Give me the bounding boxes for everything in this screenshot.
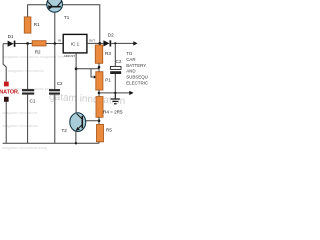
node T2 emitter bus junction	[75, 142, 77, 144]
wire T2 base	[82, 120, 99, 122]
resistor R3	[95, 45, 102, 63]
wire C1 top lead	[27, 44, 29, 90]
wire D2 to output arrow	[111, 42, 133, 44]
capacitor C2	[49, 89, 60, 95]
svg-text:D2: D2	[108, 32, 114, 37]
wire ADJ to divider junction	[76, 68, 99, 70]
svg-text:swagatam innovations: swagatam innovations	[2, 124, 38, 128]
transistor T1	[47, 0, 63, 12]
node T1 base C2 junction	[54, 42, 57, 45]
output arrow negative	[129, 91, 133, 95]
svg-text:swagatam innovations swag: swagatam innovations swag	[2, 146, 47, 150]
label output text TO CAR BATTERY	[126, 51, 149, 85]
resistor R5	[97, 125, 104, 142]
wire C3 bottom lead	[114, 74, 116, 93]
wire junction to D2	[100, 42, 104, 44]
svg-text:R4 = 2R5: R4 = 2R5	[103, 110, 123, 115]
svg-text:D1: D1	[8, 34, 14, 39]
wire bottom bus	[3, 142, 99, 144]
svg-text:T1: T1	[64, 15, 70, 20]
resistor R2	[32, 41, 46, 46]
resistor R4	[96, 97, 103, 118]
wire R4 to R5	[98, 117, 100, 124]
wire top rail right with drop to OUT junction	[62, 5, 100, 44]
wire OUT to junction	[87, 42, 100, 44]
wire R1 top lead and top rail left	[28, 5, 47, 17]
svg-text:SUBSEQU: SUBSEQU	[126, 75, 148, 80]
terminal positive	[4, 82, 9, 87]
svg-text:swagatam innovations: swagatam innovations	[8, 69, 44, 73]
wire R3 to P1	[98, 63, 100, 71]
ground	[111, 93, 120, 104]
svg-text:C1: C1	[30, 99, 36, 104]
svg-text:BATTERY: BATTERY	[126, 63, 146, 68]
svg-text:C2: C2	[116, 59, 122, 64]
wire output ground line	[99, 92, 130, 94]
svg-text:CAR: CAR	[126, 57, 135, 62]
svg-text:R2: R2	[35, 49, 41, 54]
transistor T2	[70, 113, 86, 132]
svg-text:C2: C2	[57, 81, 63, 86]
node R1 D1 R2 junction	[26, 42, 29, 45]
wire C3 top lead	[114, 43, 116, 66]
capacitor C3 electrolytic	[110, 66, 121, 74]
wire R2 to IC IN	[46, 43, 63, 45]
node ground line junction	[98, 92, 101, 95]
wire T1 base lead	[54, 12, 56, 44]
wire R5 to bottom bus	[98, 142, 100, 144]
wire C2 top lead	[54, 44, 56, 90]
wire C1 bottom lead	[27, 95, 29, 144]
resistor R1	[24, 17, 31, 33]
svg-text:R1: R1	[34, 22, 40, 27]
svg-text:TO: TO	[126, 51, 133, 56]
diode D1	[8, 41, 16, 47]
node ground tap	[114, 92, 116, 94]
svg-text:ADJUST: ADJUST	[64, 54, 75, 58]
capacitor C1	[22, 89, 34, 95]
svg-text:R3: R3	[105, 51, 111, 56]
arrow P1 wiper	[94, 75, 97, 78]
svg-text:IC 1: IC 1	[71, 41, 80, 46]
node C3 tap	[114, 42, 116, 44]
svg-text:R5: R5	[106, 127, 112, 132]
svg-text:P1: P1	[105, 77, 111, 82]
wire P1 to R4	[98, 90, 100, 97]
watermark	[2, 55, 126, 150]
wire P1 wiper link	[91, 69, 94, 77]
node R3 P1 ADJ junction	[98, 66, 101, 69]
preset P1	[96, 72, 103, 90]
svg-text:IN: IN	[58, 38, 61, 42]
op-amp U1 regulator IC1 box	[63, 34, 87, 53]
svg-text:T2: T2	[62, 128, 68, 133]
node ADJ junction	[75, 67, 78, 70]
svg-text:swagatam innovations: swagatam innovations	[2, 111, 38, 115]
wire C2 bottom lead	[54, 95, 56, 144]
wire negative terminal to bottom bus	[5, 102, 7, 144]
wire T2 emitter lead	[75, 131, 77, 144]
wire left bus	[3, 44, 6, 82]
terminal negative	[4, 97, 9, 102]
svg-text:AND: AND	[126, 69, 135, 74]
node OUT junction	[98, 42, 101, 45]
svg-text:OUT: OUT	[89, 38, 95, 42]
diode D2	[103, 40, 111, 46]
wire input line left stub	[3, 43, 8, 45]
node T2 base junction	[98, 119, 101, 122]
wire ADJ pin lead	[75, 53, 77, 114]
svg-text:ELECTRIC: ELECTRIC	[126, 80, 149, 85]
output arrow positive	[133, 41, 137, 45]
svg-text:NATOR.: NATOR.	[0, 89, 20, 95]
wire D1 to R2	[15, 43, 32, 45]
